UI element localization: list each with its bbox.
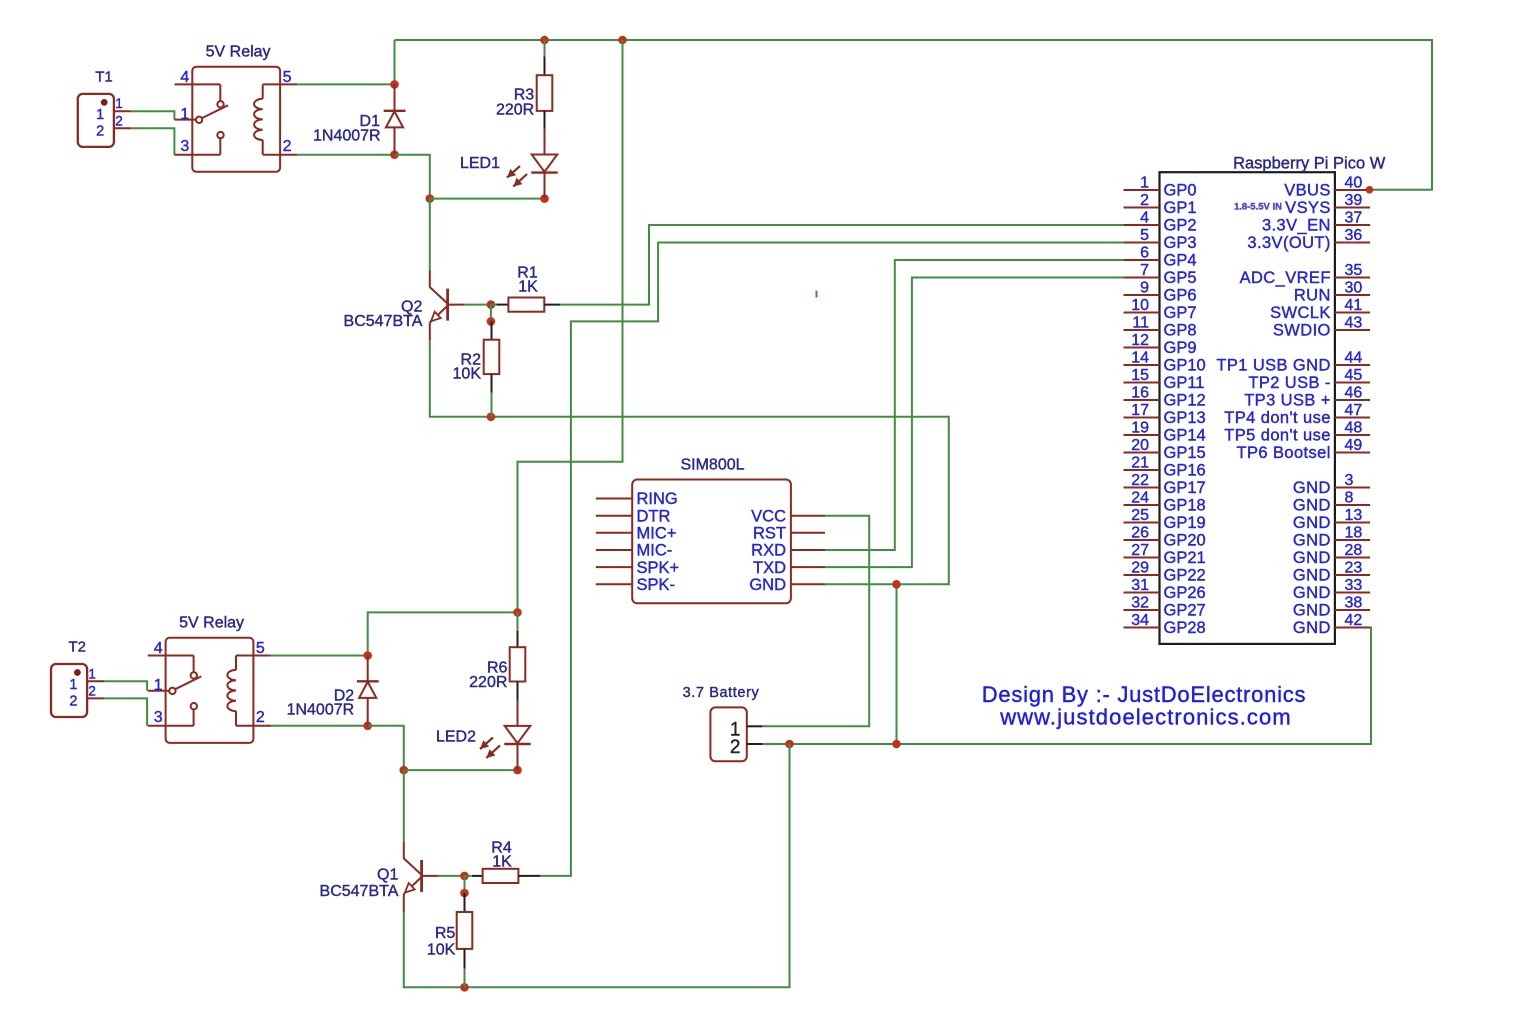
- svg-text:33: 33: [1345, 577, 1363, 594]
- svg-text:BC547BTA: BC547BTA: [320, 883, 399, 900]
- svg-text:17: 17: [1131, 402, 1149, 419]
- junction battery minus / SIM GND branch: [892, 740, 901, 749]
- svg-text:1K: 1K: [518, 279, 538, 296]
- relay K1 pin numbers 4 1 3 5 2: [180, 69, 291, 155]
- svg-text:220R: 220R: [496, 101, 534, 118]
- svg-text:SPK-: SPK-: [637, 576, 676, 594]
- svg-text:16: 16: [1131, 385, 1149, 402]
- label U2 SIM800L: [680, 457, 744, 474]
- svg-text:GND: GND: [1293, 514, 1331, 532]
- svg-text:20: 20: [1131, 437, 1149, 454]
- relay K2 pin numbers 4 1 3 5 2: [154, 640, 265, 726]
- svg-text:Design By :- JustDoElectronics: Design By :- JustDoElectronics: [982, 682, 1307, 707]
- wire T2 pin2 to relay2 pin3: [104, 698, 147, 725]
- resistor R2 10K: [484, 321, 500, 392]
- svg-text:MIC-: MIC-: [637, 542, 673, 560]
- relay K1 5V Relay: [175, 67, 298, 172]
- svg-text:GND: GND: [749, 576, 786, 594]
- svg-text:1: 1: [1140, 175, 1149, 192]
- label R5 value 10K: [427, 941, 456, 958]
- U1 left pin names GP0-GP28: [1164, 182, 1206, 638]
- label R3: [514, 87, 535, 104]
- svg-text:2: 2: [96, 124, 104, 140]
- svg-text:3.7 Battery: 3.7 Battery: [683, 685, 760, 701]
- svg-text:GP9: GP9: [1164, 339, 1197, 357]
- wire R1-R2 link: [490, 305, 492, 322]
- svg-text:2: 2: [730, 737, 741, 758]
- svg-text:TP2 USB -: TP2 USB -: [1248, 374, 1330, 392]
- svg-text:28: 28: [1345, 542, 1363, 559]
- junction VBUS pin 40: [1366, 186, 1374, 194]
- junction D2 anode: [363, 722, 372, 731]
- junction R5 bottom / ground rail: [460, 983, 469, 992]
- svg-text:26: 26: [1131, 525, 1149, 542]
- svg-text:RXD: RXD: [751, 542, 786, 560]
- svg-text:49: 49: [1345, 437, 1363, 454]
- wire SIM RXD to GP4: [825, 260, 1124, 550]
- wire relay2 pin5 to D2: [268, 655, 368, 657]
- svg-text:GP20: GP20: [1164, 532, 1206, 550]
- label Q2: [401, 299, 422, 316]
- wire bottom ground rail to Q1 emitter: [404, 744, 790, 987]
- svg-text:GND: GND: [1293, 619, 1331, 637]
- svg-text:TP3 USB +: TP3 USB +: [1244, 392, 1331, 410]
- svg-text:47: 47: [1345, 402, 1363, 419]
- label 3.7 Battery: [683, 685, 760, 701]
- svg-text:GP27: GP27: [1164, 602, 1206, 620]
- svg-text:13: 13: [1345, 507, 1363, 524]
- svg-text:1: 1: [96, 107, 104, 123]
- junction D2 cathode: [363, 651, 372, 660]
- svg-text:GP16: GP16: [1164, 462, 1206, 480]
- junction R6/D2 supply node: [513, 608, 522, 617]
- wire GND42 pin link: [1362, 627, 1372, 629]
- svg-text:TP6 Bootsel: TP6 Bootsel: [1237, 444, 1331, 462]
- wire D1 anode to Q2 collector: [395, 155, 430, 199]
- svg-text:RING: RING: [637, 490, 678, 508]
- svg-text:VBUS: VBUS: [1284, 182, 1331, 200]
- junction LED1 cathode: [540, 194, 549, 203]
- svg-text:ADC_VREF: ADC_VREF: [1240, 269, 1331, 287]
- label T1: [95, 69, 113, 86]
- svg-text:10K: 10K: [427, 941, 456, 958]
- svg-text:GP13: GP13: [1164, 409, 1206, 427]
- svg-text:GP4: GP4: [1164, 252, 1197, 270]
- svg-text:RST: RST: [753, 525, 786, 543]
- svg-text:34: 34: [1131, 612, 1149, 629]
- svg-text:3: 3: [1345, 472, 1354, 489]
- junction SIM GND node: [892, 580, 901, 589]
- wire battery minus / main ground: [762, 628, 1371, 745]
- svg-text:GP22: GP22: [1164, 567, 1206, 585]
- connector T1: [78, 94, 131, 147]
- svg-text:1K: 1K: [492, 853, 512, 870]
- wire T2 pin1 to relay2 pin1: [104, 681, 147, 691]
- svg-text:220R: 220R: [469, 674, 507, 691]
- wire D2 anode to Q1 collector: [368, 726, 404, 770]
- svg-text:4: 4: [154, 640, 163, 657]
- junction Q2 collector node: [426, 194, 435, 203]
- transistor Q2 BC547BTA: [430, 270, 465, 340]
- svg-text:15: 15: [1131, 367, 1149, 384]
- svg-text:1: 1: [88, 666, 96, 681]
- svg-text:41: 41: [1345, 297, 1363, 314]
- label T2: [68, 639, 86, 656]
- svg-text:GP6: GP6: [1164, 287, 1197, 305]
- svg-text:45: 45: [1345, 367, 1363, 384]
- svg-text:GP0: GP0: [1164, 182, 1197, 200]
- connector T2: [51, 664, 104, 717]
- svg-text:www.justdoelectronics.com: www.justdoelectronics.com: [999, 704, 1292, 729]
- junction R5 top: [460, 889, 469, 898]
- svg-text:3.3V_EN: 3.3V_EN: [1262, 217, 1331, 235]
- wire Q1 base to R4: [439, 875, 465, 877]
- svg-text:10: 10: [1131, 297, 1149, 314]
- svg-text:4: 4: [180, 69, 189, 86]
- resistor R6 220R: [510, 631, 526, 726]
- svg-text:11: 11: [1132, 315, 1149, 332]
- svg-text:GP7: GP7: [1164, 304, 1197, 322]
- junction D1 cathode node: [390, 80, 399, 89]
- svg-text:GP21: GP21: [1164, 549, 1206, 567]
- svg-text:SWDIO: SWDIO: [1273, 322, 1331, 340]
- junction D1 anode node: [390, 150, 399, 159]
- svg-text:8: 8: [1345, 490, 1354, 507]
- relay K2 5V Relay: [148, 638, 271, 743]
- svg-text:VCC: VCC: [751, 507, 786, 525]
- svg-text:6: 6: [1140, 245, 1149, 262]
- label R5: [435, 925, 456, 942]
- wire relay2 pin2 to D2 anode: [268, 725, 368, 727]
- svg-text:25: 25: [1131, 507, 1149, 524]
- LED LED1: [507, 155, 558, 199]
- label U1 Raspberry Pi Pico W: [1233, 154, 1386, 172]
- svg-text:18: 18: [1345, 525, 1363, 542]
- svg-text:22: 22: [1131, 472, 1149, 489]
- label R4: [491, 839, 512, 856]
- svg-text:1: 1: [180, 106, 189, 123]
- label LED2: [436, 729, 476, 746]
- svg-text:4: 4: [1140, 210, 1149, 227]
- svg-text:48: 48: [1345, 420, 1363, 437]
- label Q1: [377, 866, 398, 883]
- svg-text:VSYS: VSYS: [1285, 199, 1331, 217]
- svg-text:GP5: GP5: [1164, 269, 1197, 287]
- label Q1 value BC547BTA: [320, 883, 399, 900]
- label R3 value 220R: [496, 101, 534, 118]
- svg-text:44: 44: [1345, 350, 1363, 367]
- svg-text:36: 36: [1345, 227, 1363, 244]
- label K2 5V Relay: [179, 615, 244, 632]
- svg-text:GP18: GP18: [1164, 497, 1206, 515]
- svg-text:5: 5: [256, 640, 265, 657]
- svg-text:5: 5: [283, 69, 292, 86]
- label R1: [517, 265, 538, 282]
- svg-text:GP11: GP11: [1164, 374, 1205, 392]
- svg-text:SWCLK: SWCLK: [1270, 304, 1331, 322]
- wire R5 bottom lead: [464, 969, 466, 988]
- svg-text:43: 43: [1345, 315, 1363, 332]
- svg-text:GND: GND: [1293, 497, 1331, 515]
- svg-text:37: 37: [1345, 210, 1363, 227]
- svg-text:5V Relay: 5V Relay: [179, 615, 244, 632]
- svg-text:10K: 10K: [453, 365, 482, 382]
- diode D2 1N4007R: [357, 656, 379, 726]
- svg-text:GND: GND: [1293, 532, 1331, 550]
- svg-text:GP1: GP1: [1164, 199, 1197, 217]
- svg-text:31: 31: [1131, 577, 1149, 594]
- svg-text:GP15: GP15: [1164, 444, 1206, 462]
- svg-text:1.8-5.5V IN: 1.8-5.5V IN: [1234, 202, 1282, 213]
- svg-text:3: 3: [154, 709, 163, 726]
- junction top rail / mid branch: [618, 36, 627, 45]
- label Q2 value BC547BTA: [344, 313, 423, 330]
- svg-text:12: 12: [1131, 332, 1149, 349]
- svg-text:GP26: GP26: [1164, 584, 1206, 602]
- wire LED1 cathode rail: [430, 198, 545, 200]
- svg-text:35: 35: [1345, 262, 1363, 279]
- U1 right pin names: [1216, 182, 1330, 638]
- junction top rail / R3: [540, 36, 549, 45]
- wire Q2 base to R1: [465, 304, 491, 306]
- svg-text:GP14: GP14: [1164, 427, 1206, 445]
- svg-text:1N4007R: 1N4007R: [287, 702, 355, 719]
- wire T1 pin2 to relay1 pin3: [131, 128, 174, 154]
- label R6: [487, 659, 508, 676]
- resistor R4 1K: [472, 869, 541, 883]
- svg-text:GND: GND: [1293, 479, 1331, 497]
- label D2 value 1N4007R: [287, 702, 355, 719]
- svg-text:TP4 don't use: TP4 don't use: [1224, 409, 1331, 427]
- wire LED2 cathode rail: [404, 769, 518, 771]
- svg-text:2: 2: [88, 683, 96, 698]
- wire mid supply branch down to relay2 circuit: [518, 40, 623, 612]
- wire relay1 pin5 to D1: [297, 83, 394, 85]
- svg-text:38: 38: [1345, 595, 1363, 612]
- svg-text:39: 39: [1345, 192, 1363, 209]
- svg-text:GP17: GP17: [1164, 479, 1206, 497]
- label design credit line 2: [999, 704, 1292, 729]
- label design credit line 1: [982, 682, 1307, 707]
- svg-text:3: 3: [180, 138, 189, 155]
- stray wire tick: [816, 291, 818, 298]
- svg-text:1: 1: [69, 677, 77, 693]
- wire R1 to GP2: [560, 225, 1123, 305]
- svg-text:2: 2: [1140, 192, 1149, 209]
- svg-text:2: 2: [283, 138, 292, 155]
- label R2: [461, 351, 482, 368]
- wire T1 pin1 to relay1 pin1: [131, 111, 174, 119]
- svg-text:Q1: Q1: [377, 866, 398, 883]
- svg-text:GND: GND: [1293, 602, 1331, 620]
- junction Q2 base / R1 / R2 node: [487, 300, 496, 309]
- svg-text:MIC+: MIC+: [637, 525, 677, 543]
- U1 VSYS input range note 1.8-5.5V IN: [1234, 202, 1282, 213]
- MCU U1 Raspberry Pi Pico W body: [1124, 172, 1371, 644]
- junction Q1 base / R4 / R5 node: [460, 872, 469, 881]
- junction R2 top: [487, 317, 496, 326]
- svg-text:GND: GND: [1293, 567, 1331, 585]
- label R1 value 1K: [518, 279, 538, 296]
- svg-text:21: 21: [1131, 455, 1149, 472]
- label R4 value 1K: [492, 853, 512, 870]
- label K1 5V Relay: [206, 43, 271, 60]
- svg-text:GP3: GP3: [1164, 234, 1197, 252]
- module U2 SIM800L: [596, 480, 825, 604]
- junction Q1 collector node: [400, 766, 409, 775]
- svg-text:1: 1: [115, 96, 123, 111]
- svg-text:5V Relay: 5V Relay: [206, 43, 271, 60]
- label LED1: [460, 155, 500, 172]
- wire R2 bottom lead: [491, 393, 493, 417]
- svg-text:GP10: GP10: [1164, 357, 1206, 375]
- svg-text:32: 32: [1131, 595, 1149, 612]
- svg-text:LED1: LED1: [460, 155, 500, 172]
- label D1: [360, 113, 381, 130]
- resistor R5 10K: [457, 893, 473, 969]
- wire Q1 collector lead: [403, 770, 405, 842]
- svg-text:3.3V(OUT): 3.3V(OUT): [1247, 234, 1330, 252]
- diode D1 1N4007R: [384, 84, 406, 154]
- wire Q2 emitter ground rail: [430, 340, 949, 584]
- U2 right pin names VCC RST RXD TXD GND: [749, 507, 786, 594]
- svg-text:TP5 don't use: TP5 don't use: [1224, 427, 1331, 445]
- label R6 value 220R: [469, 674, 507, 691]
- U2 left pin names RING DTR MIC+ MIC- SPK+ SPK-: [637, 490, 680, 594]
- resistor R1 1K: [497, 298, 561, 312]
- svg-text:24: 24: [1131, 490, 1149, 507]
- U1 left pin numbers: [1131, 175, 1149, 630]
- svg-text:TXD: TXD: [753, 559, 786, 577]
- wire GP3 to R4 (base drive 2): [540, 243, 1123, 876]
- svg-text:TP1 USB GND: TP1 USB GND: [1216, 357, 1330, 375]
- svg-text:DTR: DTR: [637, 507, 671, 525]
- svg-text:46: 46: [1345, 385, 1363, 402]
- wire R4-R5 link: [464, 876, 466, 893]
- svg-text:SPK+: SPK+: [637, 559, 680, 577]
- svg-text:19: 19: [1131, 420, 1149, 437]
- svg-text:7: 7: [1140, 262, 1149, 279]
- battery connector 3.7 Battery: [710, 707, 762, 761]
- svg-text:40: 40: [1345, 175, 1363, 192]
- wire SIM TXD to GP5: [825, 278, 1124, 568]
- label D2: [334, 687, 355, 704]
- wire SIM800L GND branch to battery minus: [896, 584, 898, 744]
- svg-text:23: 23: [1345, 560, 1363, 577]
- svg-text:R5: R5: [435, 925, 456, 942]
- svg-text:BC547BTA: BC547BTA: [344, 313, 423, 330]
- svg-text:2: 2: [256, 709, 265, 726]
- svg-text:SIM800L: SIM800L: [680, 457, 744, 474]
- svg-text:42: 42: [1345, 612, 1363, 629]
- svg-text:1: 1: [154, 677, 163, 694]
- wire R3 top stub: [544, 39, 546, 57]
- svg-text:2: 2: [115, 113, 123, 128]
- junction LED2 cathode: [513, 766, 522, 775]
- svg-text:GP12: GP12: [1164, 392, 1206, 410]
- wire battery plus to SIM VCC: [762, 516, 869, 727]
- wire +5V top supply rail: [395, 40, 1433, 190]
- wire R6 top stub: [517, 612, 519, 631]
- svg-text:9: 9: [1140, 280, 1149, 297]
- wire D1 cathode to top rail: [394, 40, 396, 84]
- label D1 value 1N4007R: [313, 128, 381, 145]
- svg-text:Raspberry Pi Pico W: Raspberry Pi Pico W: [1233, 154, 1386, 172]
- wire relay1 pin2 to D1 anode: [297, 154, 394, 156]
- svg-text:RUN: RUN: [1294, 287, 1331, 305]
- svg-text:LED2: LED2: [436, 729, 476, 746]
- svg-text:27: 27: [1131, 542, 1149, 559]
- svg-text:T1: T1: [95, 69, 113, 86]
- svg-text:GP28: GP28: [1164, 619, 1206, 637]
- svg-text:1N4007R: 1N4007R: [313, 128, 381, 145]
- svg-text:30: 30: [1345, 280, 1363, 297]
- label R2 value 10K: [453, 365, 482, 382]
- LED LED2: [480, 726, 531, 770]
- svg-text:GP2: GP2: [1164, 217, 1197, 235]
- svg-text:14: 14: [1131, 350, 1149, 367]
- svg-text:GP19: GP19: [1164, 514, 1206, 532]
- U1 right pin numbers: [1345, 175, 1363, 630]
- transistor Q1 BC547BTA: [404, 842, 439, 912]
- resistor R3 220R: [537, 57, 553, 155]
- svg-text:29: 29: [1131, 560, 1149, 577]
- svg-text:GND: GND: [1293, 584, 1331, 602]
- junction battery minus / bottom rail: [785, 740, 794, 749]
- svg-text:T2: T2: [68, 639, 86, 656]
- svg-text:GP8: GP8: [1164, 322, 1197, 340]
- svg-text:2: 2: [69, 694, 77, 710]
- junction R2 bottom / ground rail: [487, 413, 496, 422]
- svg-text:GND: GND: [1293, 549, 1331, 567]
- wire Q2 collector lead: [429, 199, 431, 271]
- svg-text:5: 5: [1140, 227, 1149, 244]
- wire D2 cathode feed: [368, 612, 518, 655]
